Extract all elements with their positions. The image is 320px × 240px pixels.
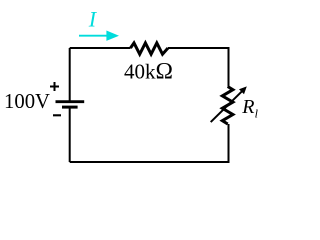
battery V1 bottom plate [62, 106, 78, 109]
battery V1 top plate [56, 100, 85, 103]
resistor 40k zigzag [131, 43, 169, 54]
current arrow I shaft [79, 35, 108, 37]
plus sign [50, 82, 59, 91]
minus sign [53, 114, 61, 116]
svg-text:40kΩ: 40kΩ [124, 59, 173, 85]
wire top-right segment [168, 48, 229, 87]
svg-text:I: I [88, 7, 98, 32]
wire bottom-left vertical segment [69, 48, 71, 162]
svg-text:l: l [255, 107, 259, 121]
svg-text:100V: 100V [4, 91, 50, 113]
svg-text:R: R [241, 96, 254, 118]
variable resistor arrow [211, 91, 242, 122]
wire top-left segment [70, 47, 131, 49]
variable resistor Rl zigzag [222, 87, 233, 125]
wire right-bottom segment [70, 124, 229, 162]
current arrow I head [106, 31, 119, 41]
